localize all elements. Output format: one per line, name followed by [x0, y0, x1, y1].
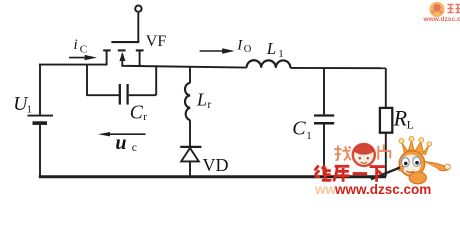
svg-text:ww: ww: [314, 182, 337, 196]
wire Lr top stub: [189, 67, 191, 84]
watermark mascot head: [398, 151, 451, 184]
watermark red seal disc with face: [353, 144, 375, 166]
capacitor Cr right plate: [126, 84, 128, 105]
svg-text:L: L: [266, 39, 276, 58]
watermark url text: [314, 182, 431, 197]
wire RL top stub: [385, 68, 387, 108]
watermark red text ku: [334, 166, 350, 182]
inductor Lr coil arcs: [185, 83, 190, 120]
wire rail from L1 to RL corner: [290, 67, 385, 69]
label Cr: [130, 102, 147, 123]
transistor VF body leg: [121, 54, 123, 66]
wire C1 top stub: [323, 68, 325, 115]
wire RL bottom stub: [385, 133, 387, 177]
battery U1 long plate: [28, 115, 54, 117]
svg-text:www.dzsc.com: www.dzsc.com: [334, 182, 431, 196]
transistor VF source contact cap: [103, 49, 110, 51]
label RL: [393, 106, 414, 132]
svg-text:r: r: [143, 111, 147, 123]
transistor VF body arrow: [119, 52, 125, 61]
watermark outlined character pian: [378, 144, 391, 159]
wire Cr right stub up to drain rail: [155, 66, 157, 95]
wire top-left rail (source node to U1 plus): [39, 64, 108, 66]
svg-text:L: L: [196, 90, 207, 110]
wire Cr bottom right segment: [129, 94, 156, 96]
transistor VF gate terminal circle: [135, 6, 141, 12]
label iC: [74, 37, 88, 55]
label C1: [292, 118, 312, 142]
transistor VF source leg: [106, 50, 108, 64]
svg-text:www.dzsc.com: www.dzsc.com: [423, 16, 460, 23]
watermark mascot pen stick: [371, 168, 400, 180]
current arrow IO: [200, 48, 235, 53]
wire Cr bottom left segment: [86, 94, 119, 96]
capacitor Cr left plate: [119, 84, 121, 105]
wire C1 bottom stub: [323, 125, 325, 177]
svg-text:1: 1: [306, 130, 312, 142]
wire Cr left stub: [86, 65, 88, 96]
svg-text:r: r: [207, 99, 211, 111]
transistor VF drain contact cap: [136, 49, 144, 51]
label U1: [13, 94, 32, 116]
wire bottom rail: [39, 175, 386, 178]
label Lr: [196, 90, 211, 111]
diode VD cathode bar: [180, 146, 201, 148]
inductor L1 coil humps: [247, 60, 291, 68]
wire diode anode to bottom rail: [189, 161, 191, 176]
svg-text:VF: VF: [146, 33, 167, 50]
transistor VF gate bar: [111, 41, 139, 43]
svg-text:L: L: [407, 120, 414, 132]
capacitor C1 top plate: [314, 114, 334, 116]
wire gate lead vertical: [137, 13, 139, 42]
transistor VF body contact cap: [118, 49, 126, 51]
svg-text:VD: VD: [203, 155, 229, 175]
svg-text:C: C: [130, 102, 144, 123]
svg-text:u: u: [115, 132, 126, 154]
label IO: [236, 37, 252, 55]
watermark outlined character zhao: [334, 146, 351, 161]
watermark top-right disc: [429, 2, 444, 17]
watermark red text xia: [370, 167, 385, 182]
voltage arrow uc pointing left: [98, 132, 146, 136]
wire battery minus down to bottom rail: [39, 125, 41, 177]
label uc: [115, 132, 137, 154]
svg-text:O: O: [244, 44, 252, 55]
wire drain rail segment to L1: [121, 66, 246, 68]
label L1: [266, 39, 284, 60]
transistor VF drain leg: [139, 50, 141, 66]
svg-text:1: 1: [278, 48, 284, 60]
svg-text:R: R: [393, 106, 408, 131]
svg-text:I: I: [236, 37, 243, 53]
capacitor C1 bottom plate: [314, 122, 334, 125]
svg-text:i: i: [74, 37, 78, 53]
resistor RL box: [380, 108, 392, 133]
svg-text:C: C: [80, 44, 87, 56]
diode VD triangle: [181, 148, 199, 161]
watermark red text wei: [315, 166, 332, 182]
current arrow iC: [69, 55, 97, 60]
watermark red text yi: [353, 172, 368, 175]
watermark mascot crown: [399, 136, 431, 155]
svg-text:1: 1: [27, 105, 32, 116]
svg-text:C: C: [292, 118, 306, 140]
wire Lr to diode: [189, 120, 191, 146]
svg-text:c: c: [132, 142, 137, 154]
wire left vertical from rail to battery: [39, 64, 41, 116]
battery U1 short thick plate: [33, 121, 48, 125]
watermark top-right red characters: [448, 5, 460, 13]
